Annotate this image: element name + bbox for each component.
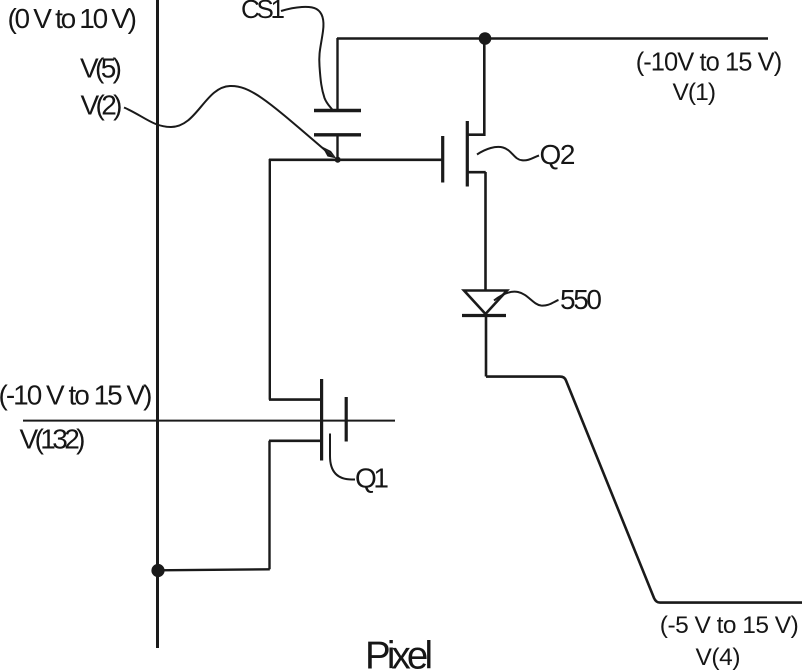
svg-text:V(5): V(5) xyxy=(80,53,122,84)
svg-text:V(132): V(132) xyxy=(20,424,86,455)
svg-text:(-5 V to 15 V): (-5 V to 15 V) xyxy=(660,612,799,639)
svg-text:V(2): V(2) xyxy=(81,90,123,121)
svg-text:550: 550 xyxy=(560,284,602,315)
svg-text:V(1): V(1) xyxy=(673,79,717,106)
svg-text:Q1: Q1 xyxy=(355,463,389,494)
svg-text:CS1: CS1 xyxy=(241,0,285,24)
svg-text:V(4): V(4) xyxy=(696,644,741,670)
svg-text:(-10 V to 15 V): (-10 V to 15 V) xyxy=(0,380,153,411)
svg-text:Q2: Q2 xyxy=(540,139,576,170)
svg-text:(-10V to 15 V): (-10V to 15 V) xyxy=(636,49,783,77)
svg-text:Pixel: Pixel xyxy=(365,635,433,670)
svg-text:(0 V to 10 V): (0 V to 10 V) xyxy=(8,3,138,34)
